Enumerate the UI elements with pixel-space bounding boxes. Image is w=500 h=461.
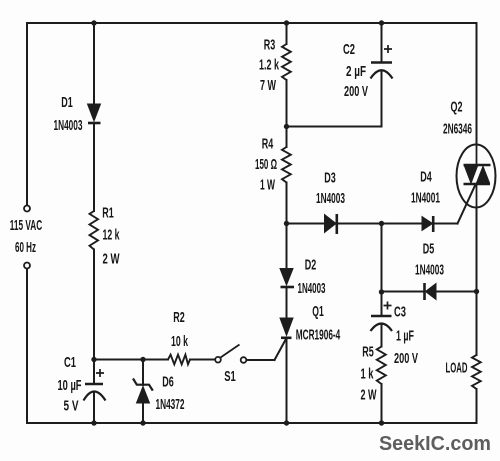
svg-text:R3: R3 xyxy=(264,37,276,54)
svg-text:2 W: 2 W xyxy=(361,387,378,404)
svg-text:D6: D6 xyxy=(162,374,174,391)
node Q1 bottom xyxy=(284,420,289,425)
svg-text:7 W: 7 W xyxy=(260,77,277,94)
wire Q1 gate diagonal xyxy=(275,338,287,360)
wire R1 to node xyxy=(93,250,95,360)
diode D2 xyxy=(280,269,294,288)
svg-text:60 Hz: 60 Hz xyxy=(15,239,36,256)
svg-text:1N4003: 1N4003 xyxy=(415,262,444,279)
node top C2 xyxy=(379,20,384,25)
svg-text:LOAD: LOAD xyxy=(446,360,468,377)
svg-text:150 Ω: 150 Ω xyxy=(255,156,277,173)
wire D3 left xyxy=(287,223,325,225)
wire D6 branch upper xyxy=(142,360,144,386)
node C3 D5 xyxy=(379,289,384,294)
svg-text:1N4372: 1N4372 xyxy=(156,396,185,413)
svg-text:C2: C2 xyxy=(343,41,355,58)
diode D3 xyxy=(325,214,337,234)
resistor LOAD xyxy=(472,355,481,389)
wire left rail lower xyxy=(26,269,28,424)
svg-text:2N6346: 2N6346 xyxy=(443,121,472,138)
wire D5 to right rail xyxy=(436,291,477,293)
wire S1 to Q1 gate horizontal xyxy=(246,359,274,361)
svg-text:S1: S1 xyxy=(224,368,236,385)
wire Q2 gate diagonal xyxy=(458,185,476,224)
wire node to D5 xyxy=(382,291,425,293)
resistor R3 xyxy=(282,44,291,80)
wire C1 to bottom xyxy=(93,393,95,423)
node R5 bottom xyxy=(379,420,384,425)
wire D6 to bottom xyxy=(142,403,144,423)
wire right rail lower xyxy=(476,389,478,423)
svg-text:5 V: 5 V xyxy=(64,398,79,415)
node D5 right rail xyxy=(474,289,479,294)
svg-text:1N4001: 1N4001 xyxy=(411,190,440,207)
svg-text:1.2 k: 1.2 k xyxy=(259,57,279,74)
zener D6 xyxy=(133,379,153,404)
svg-text:D2: D2 xyxy=(305,257,317,274)
capacitor C2 xyxy=(371,45,393,79)
svg-text:MCR1906-4: MCR1906-4 xyxy=(296,327,341,344)
wire top rail xyxy=(27,22,477,24)
wire right rail upper xyxy=(476,23,478,145)
node D3 C3 xyxy=(379,221,384,226)
diode D4 xyxy=(422,216,433,232)
wire C2 top lead xyxy=(381,23,383,63)
node D6 R2 xyxy=(140,357,145,362)
capacitor C1 xyxy=(84,369,106,401)
wire D1 branch top xyxy=(93,23,95,104)
svg-text:Q1: Q1 xyxy=(312,303,324,320)
terminal 115VAC top xyxy=(24,206,30,212)
wire node to R2 xyxy=(94,359,168,361)
svg-text:R1: R1 xyxy=(102,205,114,222)
diode D5 xyxy=(425,283,437,300)
node R1 C1 R2 xyxy=(91,357,96,362)
svg-text:1N4003: 1N4003 xyxy=(298,280,326,297)
wire D4 to Q2 gate xyxy=(433,223,458,225)
wire R5 to bottom xyxy=(381,384,383,423)
wire D2 to Q1 xyxy=(286,287,288,318)
wire C3 to R5 xyxy=(381,325,383,347)
svg-text:Q2: Q2 xyxy=(451,99,463,116)
svg-text:D5: D5 xyxy=(423,241,435,258)
svg-text:1 W: 1 W xyxy=(260,177,275,194)
svg-text:1 µF: 1 µF xyxy=(396,328,414,345)
wire C3 branch vertical xyxy=(381,224,383,293)
resistor R1 xyxy=(90,211,99,250)
wire C2 to R4 node xyxy=(287,126,382,128)
triac Q2 xyxy=(457,145,496,208)
svg-text:2 µF: 2 µF xyxy=(346,63,366,80)
svg-text:1 k: 1 k xyxy=(361,366,374,383)
svg-text:D1: D1 xyxy=(61,94,73,111)
diode D1 xyxy=(88,104,101,123)
resistor R4 xyxy=(282,147,291,183)
wire bottom rail xyxy=(27,422,477,424)
node D6 bottom xyxy=(140,420,145,425)
svg-text:1N4003: 1N4003 xyxy=(54,117,83,134)
wire R4 to D2 xyxy=(286,183,288,269)
svg-text:1N4003: 1N4003 xyxy=(316,190,345,207)
svg-text:D3: D3 xyxy=(324,170,336,187)
svg-text:200 V: 200 V xyxy=(344,83,368,100)
node top R3 xyxy=(284,20,289,25)
wire C2 bottom lead xyxy=(381,71,383,127)
svg-text:200 V: 200 V xyxy=(394,350,418,367)
svg-text:R2: R2 xyxy=(173,309,185,326)
wire Q1 to bottom xyxy=(286,338,288,423)
resistor R2 xyxy=(168,355,190,365)
wire left rail upper xyxy=(26,23,28,206)
capacitor C3 xyxy=(371,302,393,332)
SCR Q1 xyxy=(280,318,293,338)
wire D3 to D4 xyxy=(337,223,423,225)
svg-text:115 VAC: 115 VAC xyxy=(10,217,43,234)
node C1 bottom xyxy=(91,420,96,425)
wire R2 to S1 xyxy=(190,359,215,361)
svg-text:D4: D4 xyxy=(420,169,432,186)
svg-text:R4: R4 xyxy=(262,136,274,153)
wire R3 to R4 xyxy=(286,80,288,147)
svg-text:10 µF: 10 µF xyxy=(58,377,82,394)
svg-text:2 W: 2 W xyxy=(103,251,121,268)
node top D1 xyxy=(91,20,96,25)
svg-text:12 k: 12 k xyxy=(103,227,120,244)
svg-text:10 k: 10 k xyxy=(171,333,188,350)
svg-text:C1: C1 xyxy=(64,354,76,371)
terminal 115VAC bottom xyxy=(24,263,30,269)
switch S1 xyxy=(215,345,246,363)
wire node to C3 xyxy=(381,292,383,316)
svg-text:SeekIC.com: SeekIC.com xyxy=(379,433,491,455)
resistor R5 xyxy=(377,347,386,385)
node R3 R4 C2 xyxy=(284,124,289,129)
wire D1 to R1 xyxy=(93,123,95,211)
wire right rail mid xyxy=(476,208,478,356)
node R4 D3 xyxy=(284,221,289,226)
wire R3 branch top xyxy=(286,23,288,44)
wire node to C1 xyxy=(93,360,95,385)
svg-text:R5: R5 xyxy=(362,344,374,361)
svg-text:C3: C3 xyxy=(394,304,406,321)
